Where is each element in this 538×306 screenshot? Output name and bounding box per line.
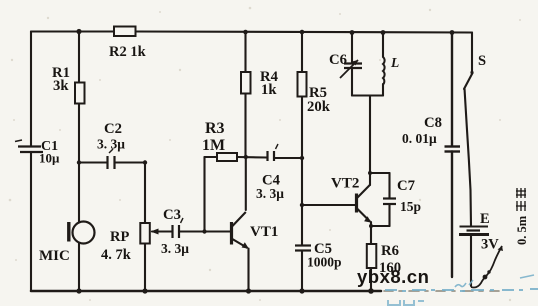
potentiometer RP [140, 223, 162, 244]
resistor R6 [367, 244, 377, 268]
svg-text:3V: 3V [481, 237, 499, 253]
wire C7 bottom to emitter [371, 225, 390, 227]
svg-text:MIC: MIC [39, 248, 70, 264]
svg-text:1k: 1k [261, 82, 277, 98]
wire switch/battery branch top [471, 33, 473, 73]
svg-text:C6: C6 [329, 52, 347, 68]
svg-text:ybx8.cn: ybx8.cn [357, 266, 429, 287]
svg-text:L: L [390, 55, 399, 70]
svg-text:15p: 15p [400, 199, 421, 214]
wire tank bottom bar [352, 94, 383, 96]
svg-text:3k: 3k [53, 78, 69, 94]
antenna wire 0.5m [471, 246, 502, 288]
blue watermark bottom dash line [385, 275, 538, 291]
wire VT1 emitter down [247, 249, 249, 292]
wire C3 / base run [152, 230, 172, 232]
svg-text:C2: C2 [104, 121, 122, 137]
wire R3 row [205, 156, 218, 158]
svg-text:VT1: VT1 [250, 224, 278, 240]
resistor R5 [298, 72, 307, 97]
wire tank left leg [351, 33, 353, 64]
wire C7 top tap [370, 172, 390, 174]
blue watermark partial glyphs below border [388, 300, 424, 305]
svg-text:C7: C7 [397, 178, 415, 194]
transistor VT2 [357, 185, 372, 223]
wire RP branch [144, 163, 146, 224]
wire R5 rail [301, 32, 303, 72]
wire bottom rail [31, 290, 381, 293]
wire top rail [31, 30, 114, 32]
wire bottom faded dash-dot [384, 290, 499, 292]
capacitor C5 [295, 246, 311, 251]
wire tank to VT2 collector [369, 96, 371, 186]
capacitor C2 [108, 149, 115, 169]
svg-text:R3: R3 [205, 120, 225, 137]
svg-text:4. 7k: 4. 7k [101, 247, 132, 263]
wire battery branch [465, 89, 472, 227]
resistor R2 [114, 27, 136, 37]
wire C2 horizontal [79, 161, 107, 163]
capacitor C8 [445, 147, 461, 152]
svg-text:3. 3μ: 3. 3μ [256, 186, 284, 201]
wire R3 branch vertical [203, 157, 205, 232]
svg-text:3. 3μ: 3. 3μ [161, 241, 189, 256]
resistor R4 [241, 72, 251, 94]
capacitor C7 [383, 199, 396, 205]
svg-text:1000p: 1000p [307, 255, 342, 270]
label 0.5m antenna (rotated) [515, 188, 529, 245]
svg-text:10μ: 10μ [39, 151, 60, 166]
svg-text:R2 1k: R2 1k [109, 44, 147, 60]
svg-text:VT2: VT2 [331, 176, 359, 192]
wire tank right leg [382, 33, 384, 58]
wire C7 vertical [388, 173, 390, 198]
resistor R3 [217, 153, 237, 161]
wire left rail [30, 32, 32, 147]
svg-text:RP: RP [110, 229, 129, 245]
wire C8 branch [451, 33, 453, 147]
resistor R1 [75, 83, 85, 104]
svg-text:C3: C3 [163, 207, 181, 223]
wire VT2 base run [302, 204, 355, 206]
wire R1/MIC branch [78, 32, 80, 84]
svg-text:1M: 1M [202, 137, 225, 154]
transistor VT1 [232, 212, 249, 249]
inductor L [383, 57, 385, 85]
svg-text:S: S [478, 53, 486, 69]
microphone MIC [69, 222, 95, 244]
svg-text:C8: C8 [424, 115, 442, 131]
variable capacitor C6 [340, 60, 362, 78]
svg-text:20k: 20k [307, 99, 331, 115]
switch S lever [464, 73, 473, 89]
wire VT2 emitter down / R6 [370, 222, 372, 244]
capacitor C1 [15, 140, 43, 152]
svg-text:0. 01μ: 0. 01μ [402, 131, 437, 146]
svg-text:0. 5m: 0. 5m [515, 215, 529, 245]
svg-text:3. 3μ: 3. 3μ [97, 137, 125, 152]
svg-text:E: E [480, 211, 490, 227]
svg-text:R6: R6 [381, 243, 399, 259]
wire C4 right to R5 rail [274, 157, 302, 159]
battery E [459, 227, 489, 235]
capacitor C4 [268, 144, 279, 161]
capacitor C3 [173, 218, 184, 238]
wire R4 / VT1 collector rail [244, 32, 246, 72]
